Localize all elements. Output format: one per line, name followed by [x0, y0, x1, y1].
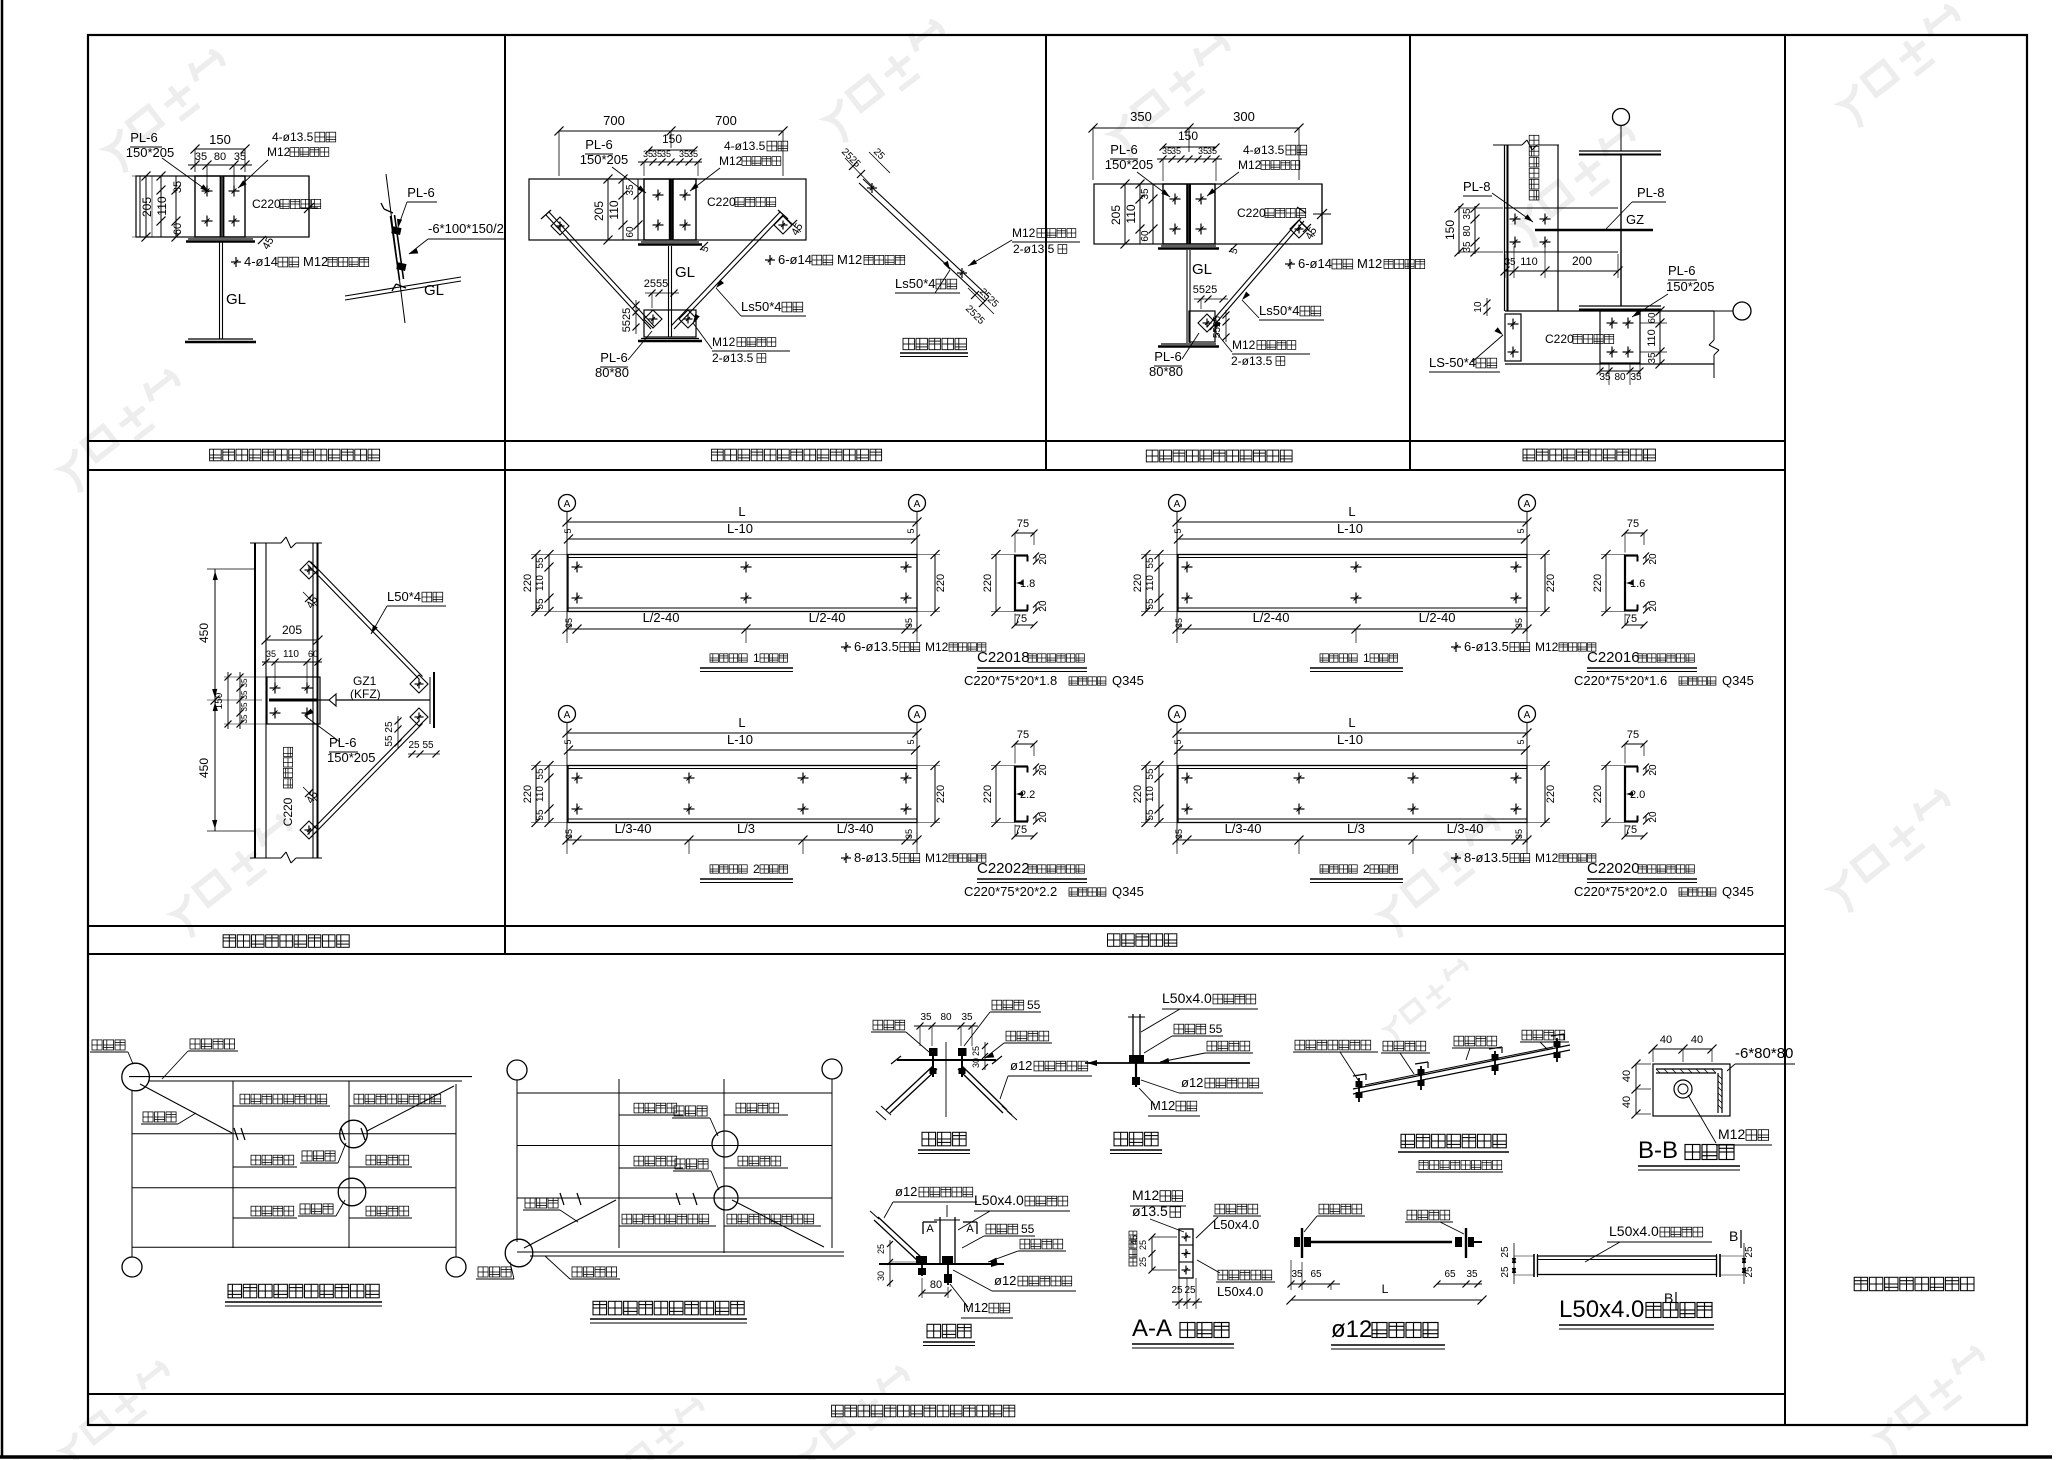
svg-text:2: 2 — [753, 862, 760, 876]
ML dims 25 55 right — [384, 716, 440, 758]
svg-text:L: L — [738, 504, 745, 519]
TS clip 2 — [1415, 1062, 1428, 1090]
svg-text:PL-6: PL-6 — [130, 130, 157, 145]
D2 dim 80 — [919, 1278, 952, 1298]
svg-text:L-10: L-10 — [1337, 521, 1363, 536]
P4 label PL-8 left — [1463, 179, 1533, 222]
svg-text:-6*80*80: -6*80*80 — [1735, 1045, 1793, 1062]
svg-text:35: 35 — [1207, 146, 1217, 156]
svg-text:40: 40 — [1621, 1070, 1633, 1082]
P4 right dim chain — [1640, 307, 1667, 369]
svg-text:10: 10 — [1473, 301, 1484, 313]
svg-text:2555: 2555 — [644, 278, 668, 290]
svg-text:55: 55 — [384, 735, 395, 747]
svg-text:150: 150 — [662, 132, 682, 146]
svg-text:110: 110 — [155, 196, 169, 215]
svg-text:300: 300 — [1233, 109, 1255, 124]
RT label purlin web left — [1304, 1204, 1365, 1232]
P4 label LS-50*4 angle — [1429, 327, 1503, 372]
ML girt verticals — [255, 543, 318, 858]
svg-text:ø13.5: ø13.5 — [1132, 1203, 1168, 1219]
P2 rafter web GL — [669, 246, 672, 337]
row1 title band top line — [88, 440, 1785, 442]
P2 dim 700 700 — [555, 113, 788, 176]
title column separator — [1784, 35, 1786, 1425]
svg-text:35: 35 — [1291, 1269, 1303, 1280]
svg-text:PL-8: PL-8 — [1463, 179, 1490, 194]
P3 bolt C — [1170, 224, 1181, 235]
svg-text:GL: GL — [226, 291, 246, 308]
P1 bolt A — [202, 186, 213, 197]
P2 dim 150 — [646, 132, 698, 154]
svg-text:8-ø13.5: 8-ø13.5 — [854, 850, 899, 865]
svg-text:C220: C220 — [281, 797, 295, 826]
svg-text:60: 60 — [1140, 230, 1151, 242]
svg-text:25: 25 — [384, 721, 395, 733]
C22016 section detail — [1574, 518, 1754, 688]
svg-text:A: A — [564, 499, 571, 510]
TS label eave roof purlin — [1293, 1040, 1378, 1083]
svg-text:80: 80 — [1462, 225, 1473, 237]
P2 label M12 2-d13.5 — [693, 314, 790, 365]
svg-text:35: 35 — [240, 678, 249, 687]
svg-text:A: A — [926, 1223, 934, 1235]
P4 girt top break line — [1493, 140, 1559, 150]
sheet title: secondary member details (1) — [1854, 1277, 1974, 1290]
TS clip 1 — [1353, 1074, 1366, 1102]
RG title ridge diagonal tie connection — [590, 1301, 747, 1323]
svg-text:5: 5 — [1516, 528, 1526, 533]
EG label detail-2 — [300, 1143, 346, 1163]
RG label diagonal tie — [523, 1198, 578, 1222]
svg-text:Q345: Q345 — [1112, 884, 1144, 899]
ML rafter arrow node — [329, 694, 336, 706]
P3 C-channel left — [1163, 184, 1188, 244]
AA left dims — [1129, 1231, 1177, 1273]
svg-text:PL-6: PL-6 — [407, 185, 434, 200]
D3 label L50x4 strut — [1141, 990, 1258, 1032]
P4 girt vertical left — [1505, 145, 1508, 311]
svg-text:110: 110 — [1520, 256, 1538, 268]
P1 label C220 series purlin — [252, 197, 321, 211]
EG label detail-3 — [298, 1200, 345, 1216]
P2 bolt A — [653, 190, 664, 201]
row2 title band bottom line — [88, 953, 1785, 955]
P1b roof line GL double — [345, 277, 461, 300]
ML rotated label C220 purlin — [281, 747, 295, 826]
RG label detail-2 — [673, 1159, 719, 1190]
svg-text:5525: 5525 — [1193, 284, 1217, 296]
BB label M12 bolt — [1688, 1095, 1772, 1145]
EG rod splice ticks 1 — [234, 1128, 245, 1140]
row3 title band top line — [88, 1393, 1785, 1395]
AA title — [1132, 1315, 1234, 1348]
P1b bottom hook — [392, 284, 406, 291]
ML left tiny dims — [214, 672, 266, 729]
svg-text:6-ø14: 6-ø14 — [778, 252, 812, 267]
svg-text:L50x4.0: L50x4.0 — [1609, 1223, 1659, 1239]
svg-text:35: 35 — [240, 690, 249, 699]
BB angle top leg — [1656, 1069, 1722, 1073]
svg-text:75: 75 — [1015, 613, 1027, 625]
svg-text:(KFZ): (KFZ) — [350, 687, 381, 701]
ML rafter line right — [336, 699, 430, 701]
RG vertical line 3 — [723, 1079, 725, 1253]
svg-text:150: 150 — [209, 132, 231, 147]
D1 diagonal left — [876, 1066, 937, 1120]
P2 label C220 series purlin — [707, 195, 776, 209]
svg-text:C22022: C22022 — [977, 860, 1030, 877]
D1 label purlin web — [985, 1031, 1052, 1058]
P3 brace end diamond — [1290, 220, 1308, 238]
EG label round-pipe strut 1 — [233, 1094, 330, 1106]
top row panel separator 2 — [1045, 35, 1047, 470]
P3 label C220 series purlin — [1237, 206, 1306, 220]
svg-text:LS-50*4: LS-50*4 — [1429, 355, 1476, 370]
D2 dim 25 30 left — [876, 1240, 918, 1287]
svg-text:L/3-40: L/3-40 — [1447, 821, 1484, 836]
svg-text:PL-6: PL-6 — [1668, 263, 1695, 278]
RG vertical line 1 — [516, 1080, 518, 1242]
D3 label M12 bolt — [1139, 1088, 1200, 1116]
D1 label d12 tie — [1000, 1058, 1092, 1099]
svg-text:M12: M12 — [1357, 256, 1382, 271]
D1 center line — [945, 1042, 947, 1117]
EG rod splice ticks 2 — [341, 1128, 365, 1140]
LS left dims 25 25 — [1500, 1243, 1534, 1284]
svg-text:220: 220 — [1132, 785, 1144, 803]
AA label angle connector — [1197, 1260, 1275, 1299]
svg-text:1: 1 — [753, 651, 760, 665]
TS rod line — [1365, 1047, 1553, 1085]
P3 dim 35x4 — [1157, 146, 1222, 181]
P1b label PL-6 — [397, 185, 437, 228]
D3 bolt — [1129, 1055, 1144, 1087]
svg-text:150*205: 150*205 — [1666, 279, 1714, 294]
P1 right edge ticks — [300, 176, 318, 237]
P4 axis circle right — [1733, 302, 1751, 320]
svg-text:25: 25 — [1171, 1285, 1183, 1296]
RG vertical line 2 — [618, 1079, 620, 1248]
EG purlin line 3 — [132, 1187, 456, 1189]
P4 column bottom flange — [1579, 306, 1661, 310]
ML gusset bolts — [270, 683, 313, 719]
P3 text GL — [1192, 261, 1212, 278]
svg-text:220: 220 — [1592, 785, 1604, 803]
C22022 section detail — [964, 729, 1144, 899]
RG axis circle bottom-left — [505, 1239, 533, 1267]
svg-text:35: 35 — [172, 181, 184, 193]
P4 lower girt label C220 — [1545, 332, 1614, 346]
svg-text:5525: 5525 — [621, 308, 633, 332]
P2 bolt B — [680, 190, 691, 201]
svg-text:L/2-40: L/2-40 — [643, 610, 680, 625]
P2 label 4-d13.5 M12 — [690, 139, 788, 191]
EG label round-pipe strut 2 — [349, 1094, 446, 1106]
ML text GZ1 KFZ — [350, 674, 381, 701]
D1 dim 35 80 35 — [914, 1012, 978, 1046]
ML dim 450 vertical — [197, 569, 262, 831]
RG label round tie 1 — [619, 1103, 683, 1115]
svg-text:GL: GL — [675, 264, 695, 281]
EG title eave diagonal tie connection — [225, 1284, 382, 1306]
svg-text:PL-8: PL-8 — [1637, 185, 1664, 200]
svg-text:L-10: L-10 — [1337, 732, 1363, 747]
svg-text:220: 220 — [1592, 574, 1604, 592]
svg-text:25: 25 — [1500, 1266, 1511, 1278]
ML dim 35 110 60 — [262, 649, 322, 684]
svg-text:C22018: C22018 — [977, 649, 1030, 666]
RG label detail-3 — [672, 1106, 718, 1136]
svg-text:25: 25 — [408, 740, 420, 751]
ML label PL-6 150*205 — [305, 709, 375, 766]
D2 title — [923, 1324, 975, 1345]
svg-text:35: 35 — [661, 149, 671, 159]
P4 gusset bolts — [1510, 214, 1551, 248]
D2 diagonal rod — [870, 1211, 922, 1261]
wall purlin 2 elevation drawing — [1132, 706, 1596, 883]
P2s title brace schematic — [900, 338, 968, 356]
svg-text:GZ1: GZ1 — [353, 674, 377, 688]
TS title purlin tie schematic — [1398, 1134, 1509, 1152]
P3 label M12 2-d13.5 — [1214, 321, 1310, 368]
svg-text:5: 5 — [1516, 739, 1526, 744]
svg-text:35: 35 — [961, 1012, 973, 1023]
svg-text:25: 25 — [1138, 1240, 1148, 1250]
P3 bolt D — [1196, 224, 1207, 235]
EG axis circle bottom-right — [446, 1257, 466, 1277]
svg-text:B: B — [1729, 1228, 1738, 1244]
D1 dim 25 30 rotated — [971, 1042, 988, 1070]
svg-text:L: L — [738, 715, 745, 730]
P2s bolt cross bottom — [957, 268, 967, 278]
P1b plate double line — [391, 215, 404, 280]
RG diagonal tie right — [732, 1200, 824, 1247]
svg-text:6-ø13.5: 6-ø13.5 — [1464, 639, 1509, 654]
svg-text:GL: GL — [1192, 261, 1212, 278]
P4 text GZ — [1626, 212, 1644, 227]
svg-text:700: 700 — [715, 113, 737, 128]
EG label round tie 2 — [349, 1155, 412, 1167]
svg-text:Q345: Q345 — [1722, 673, 1754, 688]
P4 LS angle rect — [1505, 314, 1521, 361]
svg-text:2-ø13.5: 2-ø13.5 — [712, 351, 754, 365]
P3 dim 150 — [1160, 129, 1220, 151]
ML bottom break — [250, 852, 322, 863]
RT rod line — [1309, 1241, 1452, 1244]
RG diagonal tie left — [524, 1200, 616, 1248]
svg-text:L50x4.0: L50x4.0 — [974, 1192, 1024, 1208]
LS right dims 25 25 — [1720, 1243, 1755, 1284]
P4 right break zigzag — [1709, 311, 1719, 378]
ML dim 45 lower — [303, 787, 321, 806]
svg-text:200: 200 — [1572, 254, 1592, 268]
P4 girt vertical right — [1557, 145, 1559, 311]
svg-text:L50x4.0: L50x4.0 — [1217, 1284, 1263, 1299]
svg-text:25: 25 — [971, 1046, 981, 1056]
P4 label PL-6 150*205 — [1632, 263, 1714, 317]
svg-text:35: 35 — [1140, 188, 1151, 200]
AA stack bolts — [1182, 1233, 1191, 1275]
svg-text:45: 45 — [1129, 1235, 1139, 1245]
svg-text:A: A — [1174, 499, 1181, 510]
svg-text:Q345: Q345 — [1722, 884, 1754, 899]
svg-text:PL-6: PL-6 — [1110, 142, 1137, 157]
D3 purlin flange line — [1085, 1060, 1250, 1066]
svg-text:20: 20 — [1648, 600, 1659, 612]
P3 label 4-d13.5 M12 — [1207, 143, 1307, 196]
P4 GZ dark line — [1535, 229, 1653, 232]
svg-text:M12: M12 — [1535, 851, 1559, 865]
P2 dim 5525 rotated — [621, 300, 640, 334]
svg-text:150*205: 150*205 — [126, 145, 174, 160]
svg-text:80: 80 — [1614, 372, 1626, 383]
P1 channel web double line — [221, 176, 224, 237]
svg-text:80*80: 80*80 — [595, 365, 629, 380]
AA stack rect — [1179, 1229, 1193, 1278]
P1b steep centerline — [386, 174, 405, 323]
svg-text:150*205: 150*205 — [327, 750, 375, 765]
title: ridge/eave tie rod details — [832, 1405, 1015, 1417]
D2 section cut A right — [963, 1222, 977, 1235]
svg-text:20: 20 — [1038, 811, 1049, 823]
svg-text:35: 35 — [1466, 1269, 1478, 1280]
P2 bolt C — [653, 220, 664, 231]
P2 label PL-6 80*80 — [595, 331, 652, 380]
svg-text:6-ø13.5: 6-ø13.5 — [854, 639, 899, 654]
svg-text:C22016: C22016 — [1587, 649, 1640, 666]
svg-text:55: 55 — [422, 740, 434, 751]
P3 bolt B — [1196, 194, 1207, 205]
C22018 section detail — [964, 518, 1144, 688]
C22020 section detail — [1574, 729, 1754, 899]
svg-text:M12: M12 — [1238, 158, 1262, 172]
svg-text:M12: M12 — [837, 252, 862, 267]
EG label round tie 1 — [233, 1134, 297, 1167]
svg-text:35: 35 — [195, 151, 207, 163]
P2s bolt cross top — [867, 183, 877, 193]
P2 C-channel left — [644, 179, 671, 240]
P1 dim 150 top — [191, 132, 250, 172]
RG detail circle mid1 — [712, 1131, 738, 1157]
RG label detail-1 — [476, 1262, 514, 1279]
LS left end cap — [1534, 1254, 1538, 1277]
svg-text:40: 40 — [1691, 1034, 1703, 1046]
svg-text:4-ø14: 4-ø14 — [244, 254, 278, 269]
svg-text:A: A — [1524, 499, 1531, 510]
sheet bottom edge line — [0, 1455, 2052, 1459]
svg-text:5: 5 — [906, 739, 916, 744]
LS bar outline — [1538, 1256, 1717, 1275]
P4 bottom dim 35 80 35 — [1597, 364, 1644, 385]
P4 dim 10 rotated — [1473, 298, 1491, 316]
D3 title — [1110, 1132, 1162, 1153]
svg-text:60: 60 — [308, 649, 318, 659]
RG label round tie 2 — [724, 1103, 788, 1115]
svg-text:220: 220 — [522, 785, 534, 803]
P1 dim 45 rotated — [258, 235, 277, 252]
RT title — [1331, 1316, 1445, 1349]
svg-text:220: 220 — [935, 574, 947, 592]
svg-text:35: 35 — [240, 714, 249, 723]
svg-text:M12: M12 — [719, 154, 743, 168]
svg-text:C220*75*20*2.2: C220*75*20*2.2 — [964, 884, 1057, 899]
svg-text:150: 150 — [214, 692, 225, 709]
svg-text:L/3-40: L/3-40 — [837, 821, 874, 836]
P4 dim 35 110 200 — [1501, 246, 1623, 278]
BB dim left 40 40 — [1621, 1060, 1651, 1119]
P1 dim 35 80 35 — [188, 151, 252, 186]
svg-text:55: 55 — [1145, 768, 1156, 780]
P1 C-channel right — [223, 176, 245, 237]
svg-text:A-A: A-A — [1132, 1315, 1172, 1342]
RG ridge purlin double line — [517, 1252, 844, 1256]
svg-text:A: A — [1524, 710, 1531, 721]
svg-text:L/3-40: L/3-40 — [615, 821, 652, 836]
svg-text:350: 350 — [1130, 109, 1152, 124]
svg-text:60: 60 — [172, 223, 184, 235]
RG axis circle top-right — [822, 1059, 842, 1079]
P3 brace hook — [1297, 207, 1306, 213]
D3 angle bar vertical — [1128, 1014, 1145, 1062]
TS label angle strut 1 — [1381, 1041, 1430, 1074]
LS right end cap — [1717, 1254, 1721, 1277]
P2 girt beam outline — [529, 179, 806, 240]
RT dim 65 35 right — [1434, 1269, 1483, 1288]
P1 bolt C — [202, 216, 213, 227]
D2 label L50x4 strut — [958, 1192, 1070, 1230]
svg-text:35: 35 — [234, 151, 246, 163]
ML label L50*4 — [371, 589, 446, 634]
svg-text:25: 25 — [876, 1244, 886, 1254]
EG axis circle bottom-left — [122, 1257, 142, 1277]
svg-text:25: 25 — [1184, 1285, 1196, 1296]
svg-text:150: 150 — [1443, 220, 1457, 240]
title: wall brace connection detail — [223, 935, 349, 948]
P1b top hook — [381, 203, 393, 213]
svg-text:20: 20 — [1648, 764, 1659, 776]
svg-text:5: 5 — [1173, 528, 1183, 533]
RT label purlin web right — [1405, 1210, 1464, 1234]
P3 channel web double — [1187, 184, 1190, 244]
svg-text:L50x4.0: L50x4.0 — [1559, 1296, 1644, 1323]
svg-text:35: 35 — [904, 618, 914, 628]
svg-text:C220: C220 — [1545, 332, 1574, 346]
svg-text:220: 220 — [1545, 785, 1557, 803]
BB dim top 40 40 — [1649, 1034, 1717, 1062]
svg-text:Q345: Q345 — [1112, 673, 1144, 688]
RT dim 35 65 left — [1288, 1260, 1341, 1290]
BB plate rect — [1653, 1064, 1730, 1116]
P2 bottom plate — [638, 339, 702, 342]
BB angle right leg — [1718, 1069, 1722, 1113]
P3 right edge tick — [1313, 184, 1331, 244]
sheet left edge line — [1, 0, 4, 1457]
ML upper brace diamond top — [300, 561, 318, 579]
svg-text:35: 35 — [564, 618, 574, 628]
svg-text:C220*75*20*1.8: C220*75*20*1.8 — [964, 673, 1057, 688]
P1 C-channel left — [195, 176, 221, 237]
svg-text:L/3: L/3 — [1347, 821, 1365, 836]
P3 dim 350 300 — [1089, 109, 1304, 180]
P1b label -6*100*150/2 — [409, 221, 506, 254]
svg-text:25: 25 — [1744, 1246, 1755, 1258]
P3 seat plate — [1158, 246, 1219, 249]
svg-text:L: L — [1348, 715, 1355, 730]
svg-text:A: A — [914, 499, 921, 510]
svg-text:L/2-40: L/2-40 — [1419, 610, 1456, 625]
svg-text:75: 75 — [1625, 824, 1637, 836]
